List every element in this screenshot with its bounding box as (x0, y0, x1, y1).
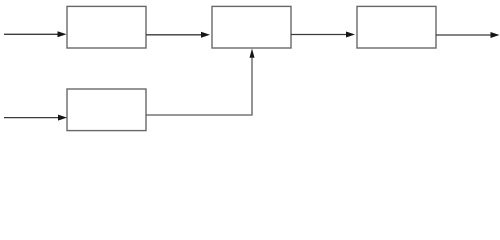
block B1 (top-left process box) (67, 6, 146, 48)
wire: input arrow into B1 (4, 31, 67, 37)
wire: B4 right, elbow up into bottom of B2 (146, 49, 255, 116)
wire: arrow B1 to B2 (146, 32, 210, 38)
block B2 (top-middle process box) (212, 6, 291, 48)
block B3 (top-right process box) (357, 6, 436, 48)
block B4 (bottom-left process box) (67, 89, 146, 131)
wire: output arrow from B3 (436, 32, 500, 38)
wire: arrow B2 to B3 (291, 32, 355, 38)
wire: input arrow into B4 (4, 115, 67, 121)
